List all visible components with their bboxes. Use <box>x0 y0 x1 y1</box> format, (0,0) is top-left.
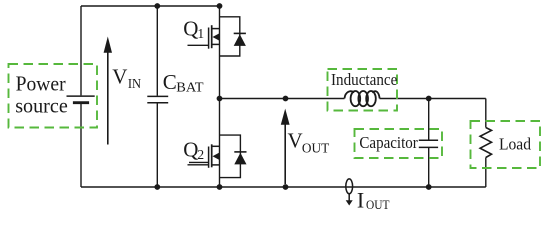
svg-text:Inductance: Inductance <box>331 70 397 89</box>
svg-text:source: source <box>15 93 68 117</box>
wire load vertical bottom <box>485 158 487 188</box>
node: V_OUT bottom junction <box>283 184 289 190</box>
svg-text:V: V <box>112 65 127 89</box>
resistor R_load <box>480 128 491 158</box>
node: Q2 source bottom junction <box>217 184 223 190</box>
transistor Q1 <box>188 25 220 49</box>
diode D1 (body diode of Q1) <box>220 17 246 56</box>
node: capacitor bottom junction <box>426 184 432 190</box>
wire mid rail right (inductor to load corner) <box>380 98 486 100</box>
svg-text:1: 1 <box>197 26 204 41</box>
svg-text:Capacitor: Capacitor <box>359 133 418 152</box>
svg-text:Power: Power <box>16 71 66 95</box>
wire capacitor vertical <box>428 99 430 188</box>
inductor L1 <box>345 91 380 106</box>
battery B1 (power source) <box>67 96 95 103</box>
svg-text:C: C <box>163 70 177 94</box>
svg-text:BAT: BAT <box>176 79 204 94</box>
svg-text:Q: Q <box>183 138 198 162</box>
wire top rail <box>81 5 220 7</box>
wire load vertical top <box>485 99 487 128</box>
svg-text:OUT: OUT <box>366 198 390 212</box>
svg-text:OUT: OUT <box>302 140 330 155</box>
wire mid rail left (switch node to inductor) <box>220 98 345 100</box>
box Load (green dashed) <box>471 121 541 168</box>
wire C_BAT vertical <box>156 6 158 187</box>
svg-text:V: V <box>288 128 303 152</box>
current probe I_OUT (ellipse + down arrow) <box>346 179 353 206</box>
arrow V_OUT <box>281 109 290 184</box>
box Capacitor (green dashed) <box>355 129 443 158</box>
svg-text:Load: Load <box>499 135 531 154</box>
node: top rail / Q1 drain junction <box>217 3 223 9</box>
node: switch node (mid rail left) <box>217 96 223 102</box>
svg-text:Q: Q <box>183 17 198 41</box>
wire left vertical (battery branch) <box>80 6 82 187</box>
box Power source (green dashed) <box>9 64 98 128</box>
node: capacitor top junction <box>426 96 432 102</box>
diode D2 (body diode of Q2) <box>220 135 247 178</box>
capacitor C_out <box>419 140 438 147</box>
arrow V_IN <box>104 37 112 145</box>
node: top rail / C_BAT junction <box>154 3 160 9</box>
capacitor C_BAT <box>147 96 168 102</box>
svg-text:IN: IN <box>128 76 141 91</box>
svg-text:2: 2 <box>197 147 204 162</box>
node: V_OUT top junction <box>283 96 289 102</box>
node: C_BAT bottom junction <box>154 184 160 190</box>
svg-text:I: I <box>357 188 364 213</box>
wire bottom rail <box>81 186 486 188</box>
transistor Q2 <box>188 144 220 168</box>
box Inductance (green dashed) <box>328 69 398 111</box>
wire Q1-Q2 main vertical <box>219 6 221 187</box>
